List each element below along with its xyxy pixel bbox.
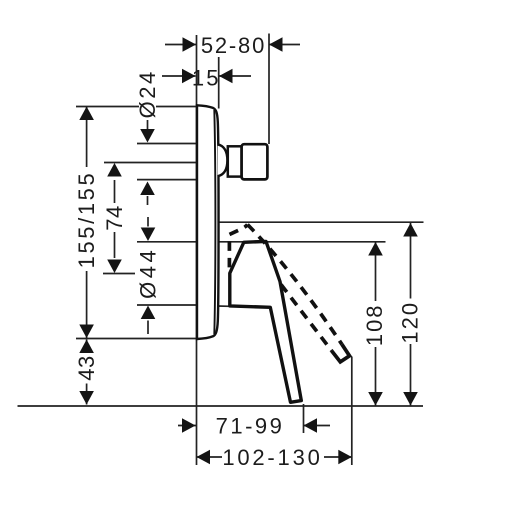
svg-text:Ø24: Ø24 [135, 69, 160, 118]
wire dimension line 74 [114, 180, 116, 203]
wire dimension line 108 [375, 242, 377, 301]
wire extension line wall plane vertical x196 [196, 35, 198, 465]
arrowhead 71-99 left [182, 418, 196, 433]
wire extension line dashed-lever top y224.4 [219, 221, 424, 223]
arrowhead O24 top [140, 129, 155, 143]
arrowhead 102-130 left [197, 450, 211, 465]
knob large cylinder [242, 144, 268, 179]
wire extension line plate top y106.5 [76, 106, 139, 108]
arrowhead 52-80 right [269, 37, 283, 52]
wire dimension line O24 [147, 120, 149, 129]
arrowhead 120 bottom [403, 392, 418, 406]
arrowhead 155/155 top [79, 107, 94, 121]
wire extension line plate front x218.7 [218, 57, 220, 109]
wire extension line knob bottom y179.6 [137, 179, 197, 181]
wire extension line knob front x269 [268, 34, 270, 145]
wire connector plate to handle bottom [217, 305, 230, 307]
wire extension line knob top y143.5 [137, 143, 197, 145]
wire dimension line 15 [162, 75, 196, 77]
arrowhead 155/155 bottom [79, 325, 94, 339]
dashed handle outline left/corner [229, 225, 247, 268]
handle body and lever [230, 241, 301, 402]
arrowhead 71-99 right [304, 418, 318, 433]
arrowhead 43 top [79, 340, 94, 354]
wire baseline lever tip level y406 [18, 405, 424, 407]
arrowhead 102-130 right [338, 450, 352, 465]
svg-text:Ø44: Ø44 [136, 247, 161, 299]
wire extension line plate bottom y338.5 [76, 338, 203, 340]
wire dimension line 155/155 [86, 107, 88, 168]
wire extension line handle top y241.8 [137, 241, 386, 243]
arrowhead 74 top [107, 163, 122, 177]
svg-text:102-130: 102-130 [222, 445, 322, 470]
arrowhead 15 right [219, 69, 233, 84]
arrowhead O24 bottom [140, 182, 155, 196]
arrowhead 74 bottom [107, 260, 122, 274]
dashed lever bottom edge [281, 285, 332, 351]
wire dimension line 71-99 [178, 425, 196, 427]
svg-text:120: 120 [397, 301, 422, 344]
knob dome [218, 144, 228, 176]
arrowhead O44 bottom [141, 306, 156, 320]
wire dimension line 120 [410, 223, 412, 299]
wire dimension line 43 [86, 340, 88, 353]
svg-text:108: 108 [362, 303, 387, 346]
arrowhead 43 bottom [79, 391, 94, 405]
arrowhead 108 bottom [368, 392, 383, 406]
plate face line [214, 110, 215, 334]
wire dimension line O44 [147, 217, 149, 227]
arrowhead 120 top [403, 223, 418, 237]
wire dimension line 52-80 [165, 44, 196, 46]
wire extension line lever tip x303.5 [303, 404, 305, 433]
arrowhead O44 top [141, 228, 156, 242]
knob small cylinder [228, 146, 242, 176]
wire dimension line 102-130 [197, 456, 223, 458]
svg-text:71-99: 71-99 [216, 414, 285, 439]
dashed lever top edge [248, 225, 342, 345]
arrowhead 52-80 left [183, 37, 197, 52]
wire extension line handle bottom y305 [137, 304, 198, 306]
svg-text:43: 43 [74, 355, 99, 380]
wire extension line knob axis y162.5 [104, 162, 197, 164]
svg-text:52-80: 52-80 [201, 33, 266, 58]
wire extension line handle axis y273.5 [103, 273, 135, 275]
arrowhead 108 top [368, 242, 383, 256]
svg-text:74: 74 [102, 205, 127, 230]
escutcheon plate silhouette [197, 105, 219, 339]
svg-text:155/155: 155/155 [74, 171, 99, 269]
wire extension line dashed-lever tip x352.5 [351, 357, 353, 466]
svg-text:15: 15 [192, 66, 221, 91]
arrowhead 15 left [182, 69, 196, 84]
dashed lever tip cap [332, 344, 350, 362]
dashed lever open position [229, 225, 349, 362]
